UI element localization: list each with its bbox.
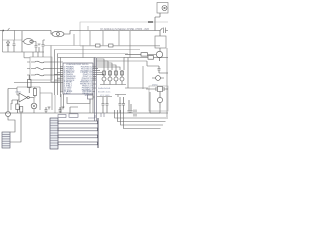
switch S2 on rail [160,28,168,34]
wire dc rail left [3,39,23,41]
vertical bus left of MCU [51,46,61,98]
svg-text:U1 AT90S2313P DIP-20: U1 AT90S2313P DIP-20 [66,63,89,66]
wire J3 feed B [10,113,21,142]
connector J1 [50,118,58,149]
capacitor C11 series [134,110,136,117]
bus bottom-right L2 [118,110,166,122]
ground bus left [3,51,45,53]
wire drop x130 [129,31,131,58]
wire branch x128 [125,58,148,89]
wire drop x103 [102,31,104,46]
bus rail above MCU [58,57,96,59]
svg-text:LM311: LM311 [15,92,22,94]
relay box K2 [155,31,166,52]
capacitor C5 [102,97,105,113]
node junction [73,34,75,46]
wire drop [142,66,144,89]
rail right mid A [124,57,168,59]
wire stubs to bar1 [88,113,104,118]
crystal X1 [146,87,168,92]
bus rails to right side [44,46,160,54]
wire drop x90 [89,31,91,46]
wire loop left of J1 [40,93,52,110]
wire aux left [10,103,12,110]
wire top rail [3,30,51,32]
wire top rail right [70,30,160,32]
crystal box frame [149,86,168,111]
wire right edge rail [166,48,168,117]
transistor Q5 [31,98,37,114]
capacitor C2 [35,44,41,52]
resistor R3 [125,53,148,56]
capacitor C3 [45,107,51,113]
resistor R8 on rail [148,56,154,60]
wire left rail [2,31,4,53]
wire stub to pair [93,96,95,98]
capacitor C10 [158,66,169,73]
svg-text:4MHz: 4MHz [152,85,158,87]
AC input plug P1 [0,28,10,31]
wire switch to MCU [52,62,63,75]
jumper JP2 [109,44,114,47]
jumper JP1 [96,44,101,47]
resistor R9 [28,75,32,93]
wire J3 feed A [8,117,15,132]
U1 right pin stubs [93,67,104,92]
resistor R2 [20,107,23,113]
bus bottom-right L4 [124,113,161,129]
fuse F1 [51,31,70,37]
wire bus right staircase [93,58,124,71]
wire stub x55 [54,95,56,113]
wire switch left drop [14,62,63,83]
bus bottom-right L1 [115,110,169,118]
rail right mid B [96,60,147,62]
wire MCU bottom drops [61,94,93,113]
transistor Q3 [114,70,118,85]
capacitor C4 [59,107,65,113]
transistor Q1 [102,70,106,85]
svg-text:o+o+o+o+o: o+o+o+o+o [98,87,111,90]
label J1 [58,114,78,118]
bar trace 1 [58,121,98,124]
wire drop x14.5 [14,31,16,41]
resistor R6 [115,71,118,75]
capacitor C1 [13,40,16,52]
diode D1 [7,40,10,52]
transistor Q6 [148,51,163,61]
capacitor C6 [106,97,109,113]
component box below MCU [88,95,94,113]
wire reg down [24,52,30,58]
wire drop x83 [82,46,84,58]
wire branch x147 [147,61,159,66]
bus bottom-right L3 [121,110,164,125]
U1 left pin stubs [51,67,63,92]
wire crystal left drop [150,92,160,113]
microcontroller U1 [63,63,93,94]
LED D2 [6,89,11,118]
resistor R4 [103,71,106,75]
resistor R7 [121,71,124,75]
wire opamp input rail [8,88,17,90]
resistor R10 feedback [33,87,36,98]
connector J3 bottom-left [2,132,10,148]
voltage regulator VR1 [22,31,36,52]
capacitor C7 [119,97,122,113]
bar trace 2 [58,128,98,131]
svg-text:BC548C 4x1k: BC548C 4x1k [98,92,110,94]
transistor Q2 [108,70,112,85]
resistor R5 [109,71,112,75]
wire vertical pair bus [95,58,97,122]
ground bus bottom [0,112,168,114]
frame label tick [148,21,153,23]
op-amp U2 [12,93,34,104]
capacitor C9 [128,100,133,113]
U1 pin labels left column [64,66,76,96]
capacitor C8 [122,97,125,113]
capacitor C12 [42,40,46,52]
wire corner to bars [70,107,78,113]
wire drop x119 [118,31,120,46]
wire opamp loop top [17,87,40,95]
wire under MCU loop [67,97,90,104]
U1 pin labels right column [80,67,93,98]
relay K1 top right [155,3,168,31]
wire misc top joins [87,26,89,31]
bar trace 3 [58,135,98,138]
wire caps top [97,95,126,98]
svg-text:3 AVCC: 3 AVCC [64,92,72,95]
frame border (sheet) [80,22,168,46]
bar trace 4 [58,142,98,145]
wire bars right edge [97,118,99,148]
diode D3 [152,76,164,81]
LED D4 [157,92,162,109]
wire emitter rail [100,84,126,86]
transistor Q4 [120,70,124,85]
DIP switch SW1 [30,52,52,80]
resistor R1 [16,100,19,113]
